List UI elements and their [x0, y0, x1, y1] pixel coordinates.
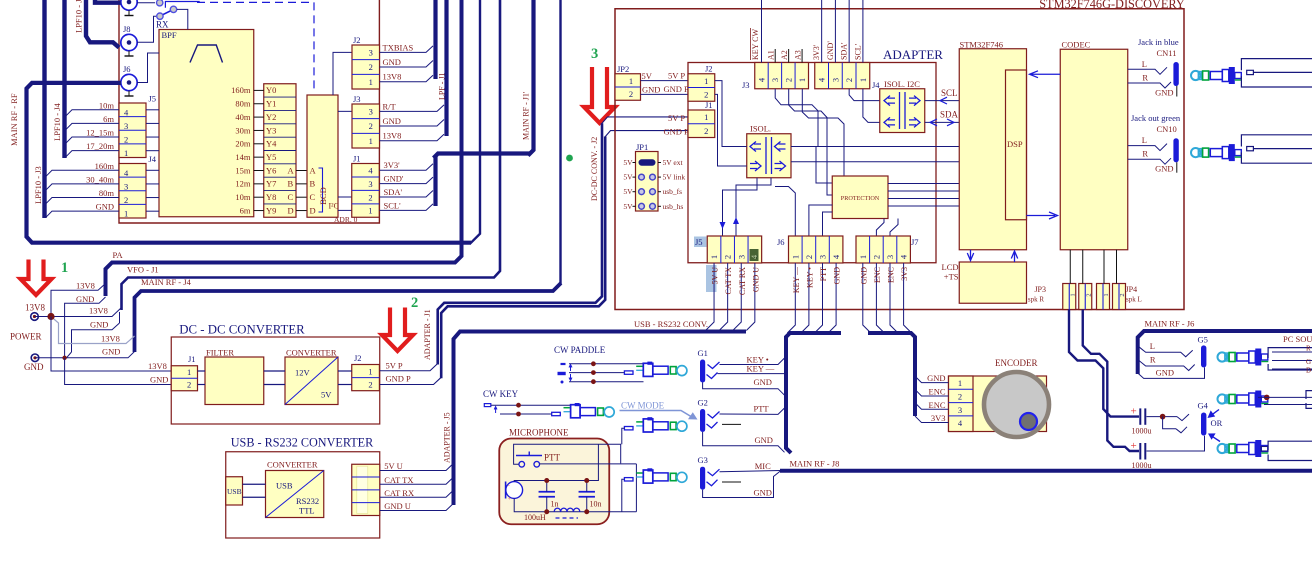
- svg-text:13V8: 13V8: [89, 306, 108, 316]
- svg-text:R: R: [1150, 355, 1156, 365]
- svg-text:ENC: ENC: [873, 267, 882, 283]
- PC mic plug (upper) tick: [1261, 403, 1268, 405]
- svg-text:4: 4: [899, 254, 909, 259]
- svg-text:3: 3: [369, 107, 373, 117]
- Y decoder block: [264, 84, 296, 218]
- svg-text:30_40m: 30_40m: [86, 174, 114, 184]
- JP1 row usb_fs left stub: [633, 191, 636, 193]
- svg-text:GND': GND': [826, 41, 835, 60]
- svg-text:A2: A2: [780, 50, 789, 60]
- stub J4 pin3 to BPF: [146, 183, 159, 185]
- svg-text:VFO - J1: VFO - J1: [127, 265, 159, 275]
- wire J2 main west: [333, 52, 352, 95]
- PC sound wire R: [1272, 351, 1312, 353]
- svg-text:PTT: PTT: [544, 453, 561, 463]
- coax connector J8 center pin: [127, 40, 132, 45]
- svg-text:ADAPTER - J5: ADAPTER - J5: [443, 412, 452, 463]
- encoder header separator 2: [949, 402, 974, 404]
- wire SDA: [925, 121, 960, 123]
- G1 tip contact: [708, 362, 720, 369]
- JP1 row 5V ext left stub: [633, 162, 636, 164]
- CN11 plug ring: [1203, 71, 1209, 80]
- svg-text:Jack out green: Jack out green: [1131, 113, 1181, 123]
- wire J2 pin1 to ISOL: [715, 81, 747, 147]
- svg-text:5V: 5V: [623, 158, 633, 167]
- CN10 plug ring: [1203, 148, 1209, 157]
- svg-text:Y0: Y0: [266, 85, 276, 95]
- wire CONVERTER-J2 pin2: [338, 384, 352, 386]
- stub J5 pin4 to BPF: [146, 109, 159, 111]
- stub J5 pin1 to BPF: [146, 150, 159, 152]
- G5 plug tick: [1261, 361, 1268, 363]
- coax J9 (top, cut) ground bar: [125, 15, 134, 17]
- wire cap1 to G4: [1147, 416, 1178, 418]
- wire 13V8 row0: [51, 284, 106, 317]
- svg-text:J1: J1: [353, 154, 361, 164]
- svg-text:G2: G2: [698, 398, 708, 408]
- svg-text:3: 3: [885, 255, 895, 259]
- CW mode plug flange: [643, 419, 653, 432]
- svg-text:-: -: [508, 483, 510, 489]
- CN11 cable outline: [1241, 59, 1312, 87]
- svg-text:12_15m: 12_15m: [86, 128, 114, 138]
- terminal GND pin: [33, 356, 36, 359]
- svg-text:1000u: 1000u: [1132, 427, 1152, 436]
- svg-text:R/T: R/T: [383, 101, 397, 111]
- svg-text:B: B: [310, 179, 316, 189]
- svg-text:J2: J2: [354, 353, 362, 363]
- JP3 cell1 line: [1068, 284, 1070, 310]
- wire branch 827 down: [827, 162, 832, 195]
- svg-text:Y6: Y6: [266, 165, 276, 175]
- SDA arrowhead left: [930, 119, 937, 126]
- CW key plug ring: [598, 408, 604, 415]
- wire B Y-block to BCD: [296, 183, 307, 185]
- JP4 cell2 line: [1118, 284, 1120, 310]
- JP2 separator: [615, 86, 641, 88]
- ISOL arrow mid-top: [775, 142, 786, 152]
- svg-text:1: 1: [1103, 293, 1110, 296]
- wire SCL' to I2C: [863, 89, 880, 123]
- svg-text:PC SOUND: PC SOUND: [1283, 334, 1312, 344]
- svg-text:1: 1: [704, 112, 708, 122]
- wire J1-FILTER pin1: [198, 370, 206, 372]
- CW mode plug flange tab: [648, 418, 652, 420]
- bus MAIN RF - RF (J6 feed): [27, 83, 472, 243]
- svg-text:GND P: GND P: [386, 374, 412, 384]
- svg-text:spk L: spk L: [1126, 296, 1142, 304]
- svg-text:2: 2: [368, 192, 372, 202]
- G5 plug barrel: [1237, 353, 1249, 361]
- svg-text:J1: J1: [705, 100, 713, 110]
- CN11 cable hole: [1247, 70, 1254, 74]
- pin wire GND U: [746, 263, 755, 331]
- wire CODEC down x1082.75: [1082, 250, 1084, 284]
- wire GND: [379, 120, 444, 127]
- CONVERTER 12V/5V block: [285, 357, 338, 405]
- svg-text:10m: 10m: [99, 100, 115, 110]
- J1 (DC-DC) pin separator 1: [171, 377, 197, 379]
- pin wire J7-2: [876, 263, 884, 333]
- ADAPTER outer box: [615, 9, 1184, 310]
- I2C isolator barrier a: [899, 92, 901, 129]
- J1 (adapter) pin separator 1: [688, 123, 715, 125]
- wire PROTECTION to STM32 3: [888, 205, 959, 207]
- pin wire J6-2: [801, 263, 809, 333]
- wire PROTECTION to STM32 1: [888, 190, 959, 192]
- svg-text:R: R: [1306, 345, 1311, 353]
- RX switch contact bottom: [157, 13, 163, 19]
- G3 nc stub: [722, 481, 741, 483]
- wire GND to DC-DC J1: [65, 358, 172, 385]
- svg-text:1: 1: [858, 255, 868, 259]
- junction mic rail 1: [544, 478, 549, 483]
- svg-text:160m: 160m: [231, 85, 251, 95]
- svg-text:D: D: [288, 205, 294, 215]
- svg-text:3: 3: [770, 78, 780, 82]
- wire 3V3': [379, 164, 433, 171]
- CW mode plug cyan tick: [636, 425, 642, 427]
- blue stub wire at switch: [165, 2, 199, 8]
- G3 ring contact: [707, 480, 718, 486]
- wire J1-FILTER pin2: [198, 384, 206, 386]
- PTT contact left: [519, 461, 525, 467]
- wire C Y-block to BCD: [296, 196, 307, 198]
- output connector separator 2: [352, 489, 380, 491]
- wire PTT G2: [720, 408, 785, 414]
- svg-text:USB: USB: [276, 481, 293, 491]
- wire mic out right: [635, 464, 637, 512]
- RX switch contact moving: [170, 6, 176, 12]
- encoder pin header: [949, 376, 974, 432]
- wire stub 10m to Y8: [254, 196, 264, 198]
- svg-text:MICROPHONE: MICROPHONE: [509, 428, 569, 438]
- svg-text:1: 1: [790, 255, 800, 259]
- svg-text:1: 1: [61, 260, 68, 276]
- svg-text:USB - RS232 CONV.: USB - RS232 CONV.: [634, 319, 708, 329]
- wire stub 30m to Y3: [254, 129, 264, 131]
- microphone plug green tick: [636, 472, 642, 474]
- wire 80m to LPF10-J3 bus: [46, 198, 119, 204]
- microphone plug cap: [677, 472, 687, 482]
- paddle long dash symbol: [558, 372, 566, 375]
- J2 (DC-DC) pin separator 1: [352, 377, 380, 379]
- wire 13V8: [379, 134, 444, 141]
- wire J6 pin1 up: [775, 187, 795, 237]
- paddle junction 3: [591, 379, 596, 384]
- Y block row separator 1: [264, 96, 296, 98]
- svg-text:1: 1: [709, 255, 719, 259]
- svg-text:STM32F746: STM32F746: [960, 40, 1003, 50]
- wire FILTER-CONVERTER pin1: [264, 370, 285, 372]
- svg-text:J6: J6: [777, 237, 785, 247]
- capacitor 1n stub top: [546, 481, 548, 492]
- svg-text:SDA': SDA': [840, 42, 849, 60]
- svg-text:SCL': SCL': [853, 43, 862, 60]
- bus LPF10-J4 vertical: [62, 0, 66, 158]
- svg-text:Y7: Y7: [266, 179, 276, 189]
- PTT button stem: [528, 452, 530, 456]
- paddle junction 2: [591, 370, 596, 375]
- svg-text:J2: J2: [705, 64, 713, 74]
- wire PROTECTION to STM32 2: [888, 198, 959, 200]
- svg-text:LPF10 - J4: LPF10 - J4: [52, 102, 62, 141]
- svg-text:Y2: Y2: [266, 112, 276, 122]
- svg-text:BPF: BPF: [162, 30, 177, 40]
- connector J2 (main): [352, 45, 380, 89]
- arrow DSP to CODEC: [1027, 212, 1058, 219]
- J1 (main) pin separator 1: [352, 176, 380, 178]
- CN10 jack sleeve bar: [1173, 138, 1178, 162]
- wire stub 20m to Y4: [254, 143, 264, 145]
- wire 5V U to bus: [380, 464, 453, 471]
- svg-text:USB - RS232 CONVERTER: USB - RS232 CONVERTER: [231, 436, 374, 450]
- svg-text:2: 2: [704, 126, 708, 136]
- svg-text:3: 3: [736, 255, 746, 259]
- I2C arrow right-bot: [909, 117, 920, 127]
- wire ISOL bottom to J5 pin3: [736, 178, 771, 236]
- JP1 row 5V ext right stub: [658, 162, 661, 164]
- wire A Y-block to BCD: [296, 170, 307, 172]
- PTT contact right: [534, 461, 540, 467]
- wire ISOL bottom to J5 pin2: [723, 178, 758, 236]
- Y block row separator 5: [264, 150, 296, 152]
- CN10 plug tick: [1235, 156, 1242, 158]
- wire 13V8 row2: [35, 308, 122, 317]
- CW mode plug cap: [677, 421, 687, 431]
- G4 tip contact wire: [1177, 414, 1189, 421]
- svg-text:GND: GND: [859, 267, 868, 285]
- USB port block: [226, 477, 243, 505]
- microphone plug cyan tick: [636, 476, 642, 478]
- svg-text:12V: 12V: [295, 368, 311, 378]
- Y block row separator 7: [264, 176, 296, 178]
- jumper JP4 cell 2: [1113, 284, 1126, 310]
- red arrow 3: [584, 67, 615, 123]
- ADAPTER inner box: [688, 63, 936, 263]
- jack G2 sleeve bar: [700, 409, 705, 432]
- svg-text:GND: GND: [833, 267, 842, 285]
- svg-text:Jack in blue: Jack in blue: [1138, 37, 1179, 47]
- svg-text:GND: GND: [754, 488, 772, 498]
- svg-text:+TS: +TS: [944, 272, 959, 282]
- CW paddle plug flange tab: [648, 362, 652, 364]
- pin wire J6-4: [828, 263, 836, 333]
- jumper block JP1: [636, 152, 659, 212]
- svg-text:GND: GND: [24, 362, 44, 372]
- svg-text:LCD: LCD: [942, 262, 959, 272]
- svg-text:PTT: PTT: [819, 267, 828, 281]
- CN10 plug collar: [1222, 147, 1229, 159]
- svg-text:ENC: ENC: [929, 386, 946, 396]
- stub J5 pin3 to BPF: [146, 122, 159, 124]
- svg-text:JP3: JP3: [1034, 285, 1046, 294]
- svg-text:TTL: TTL: [299, 506, 315, 516]
- svg-text:RX: RX: [156, 20, 169, 30]
- wire J7 pin2 up: [876, 219, 884, 237]
- wire PTT loop bottom: [540, 463, 637, 465]
- mode plug wire tip: [622, 428, 625, 444]
- wire 17_20m to LPF10-J4 bus: [66, 151, 119, 157]
- LCD+TS block: [959, 262, 1026, 303]
- bus VFO - J1 sweep: [122, 0, 501, 310]
- G5 sleeve bar: [1201, 345, 1206, 367]
- svg-text:3: 3: [368, 179, 372, 189]
- CN10 plug barrel: [1210, 149, 1222, 157]
- wire R/T: [379, 105, 444, 112]
- wire cap2 to G4 bottom: [1147, 436, 1205, 451]
- connector J2 (adapter): [688, 74, 715, 102]
- coax J6 ground stub: [128, 91, 130, 96]
- red arrow 1: [21, 260, 52, 296]
- svg-text:J5: J5: [149, 94, 157, 104]
- USB-RS232 converter box: [226, 452, 380, 538]
- CN10 L wire: [1128, 144, 1167, 151]
- CN11 plug flange: [1229, 67, 1235, 84]
- wire encoder ENC: [915, 389, 949, 396]
- svg-text:I²C: I²C: [329, 202, 339, 211]
- svg-text:2: 2: [844, 78, 854, 82]
- wire SDA' to I2C: [849, 89, 880, 101]
- svg-text:G5: G5: [1198, 335, 1208, 345]
- USB-RS232 output connector inner: [357, 466, 368, 513]
- jumper JP2: [615, 74, 641, 101]
- svg-text:160m: 160m: [95, 161, 115, 171]
- svg-text:JP2: JP2: [617, 64, 629, 74]
- highlight 5V U label: [706, 265, 717, 292]
- wire mic top rail: [514, 444, 598, 481]
- PC mic plug (upper) flange: [1255, 391, 1261, 408]
- CN11 plug tick: [1235, 79, 1242, 81]
- svg-text:CODEC: CODEC: [1062, 40, 1091, 50]
- svg-text:OR: OR: [1211, 418, 1223, 428]
- isolator barrier a: [765, 137, 767, 174]
- svg-text:2: 2: [368, 379, 372, 389]
- G2 ring contact: [707, 422, 718, 428]
- svg-text:G1: G1: [698, 348, 708, 358]
- CW mode plug tip pin: [624, 427, 633, 430]
- svg-text:3: 3: [818, 255, 828, 259]
- paddle dot symbol: [561, 381, 564, 384]
- svg-text:SDA: SDA: [940, 110, 959, 120]
- bus MAIN RF - J1' lower segment: [433, 156, 437, 206]
- svg-text:STM32F746G-DISCOVERY: STM32F746G-DISCOVERY: [1039, 0, 1185, 11]
- CN11 GND stub: [1176, 86, 1178, 97]
- microphone plug flange: [643, 470, 653, 483]
- G2 nc stub: [722, 423, 741, 425]
- svg-text:R: R: [1142, 149, 1148, 159]
- Y block row separator 9: [264, 203, 296, 205]
- svg-text:2: 2: [704, 90, 708, 100]
- coax J8 ground stub: [128, 51, 130, 56]
- wire GND row3: [72, 323, 120, 352]
- PC line plug (lower) tick: [1261, 452, 1268, 454]
- PC sound wire G: [1272, 360, 1312, 362]
- CN11 plug cap inner: [1198, 72, 1201, 80]
- svg-text:CAT TX: CAT TX: [384, 475, 413, 485]
- microphone plug ring: [670, 473, 676, 480]
- wire L G5: [1138, 346, 1193, 357]
- wire stub 160m to Y0: [254, 89, 264, 91]
- wire CAT RX to bus: [380, 491, 453, 498]
- J6 (adapter) separator 2: [815, 236, 817, 263]
- bus MAIN RF - RF north segment: [470, 0, 480, 244]
- svg-text:J3: J3: [353, 94, 361, 104]
- converter diagonal: [285, 357, 338, 405]
- CW paddle plug ring: [670, 367, 676, 374]
- svg-text:1: 1: [1069, 293, 1076, 296]
- J2 (adapter) pin separator 1: [688, 87, 715, 89]
- encoder header separator 1: [949, 388, 974, 390]
- pin stub A3: [801, 49, 803, 63]
- wire CODEC down x1116.5: [1116, 250, 1118, 284]
- capacitor 1n bottom plate: [539, 496, 555, 498]
- svg-text:2: 2: [958, 391, 962, 401]
- svg-text:GND: GND: [90, 320, 108, 330]
- svg-text:A: A: [310, 165, 317, 175]
- key arrow: [494, 407, 497, 414]
- svg-text:2: 2: [411, 295, 418, 311]
- CN10 R wire: [1128, 158, 1171, 164]
- bus LPF10-J3 vertical: [42, 0, 46, 218]
- PC mic plug (upper) pin: [1261, 396, 1268, 402]
- arrow LCD to STM32: [1011, 251, 1017, 262]
- PC line plug (lower) collar: [1249, 443, 1256, 455]
- svg-text:4: 4: [756, 77, 766, 82]
- svg-text:LPF10 - J5: LPF10 - J5: [74, 0, 84, 33]
- jumper JP3 cell 2: [1079, 284, 1092, 310]
- PROTECTION block: [832, 176, 888, 219]
- wire RX to BPF top: [177, 9, 188, 29]
- svg-text:G3: G3: [698, 455, 708, 465]
- svg-text:80m: 80m: [235, 99, 251, 109]
- stub J4 pin2 to BPF: [146, 197, 159, 199]
- svg-text:C: C: [310, 192, 316, 202]
- svg-text:1: 1: [124, 148, 128, 158]
- pin wire J6-1: [787, 263, 795, 333]
- wire GND row3 tail: [67, 352, 72, 358]
- wire J6 to BPF: [137, 53, 159, 83]
- PTT button bar: [516, 455, 542, 457]
- svg-text:DSP: DSP: [1007, 139, 1023, 149]
- wire 12_15m to LPF10-J4 bus: [66, 137, 119, 143]
- svg-text:2: 2: [723, 255, 733, 259]
- J4 adapter separator 1: [828, 63, 830, 89]
- svg-text:GND: GND: [642, 85, 660, 95]
- svg-text:1: 1: [187, 367, 191, 377]
- pc mic cable box upper: [1306, 391, 1312, 409]
- wire TXBIAS: [379, 46, 433, 53]
- capacitor 1n stub bottom: [546, 497, 548, 512]
- JP1 pin b usb_fs: [650, 189, 656, 195]
- PC mic plug (upper) cap inner: [1225, 395, 1228, 403]
- svg-text:J4: J4: [872, 80, 880, 90]
- svg-text:ISOL.: ISOL.: [750, 124, 771, 134]
- svg-text:GND P: GND P: [664, 84, 690, 94]
- bus MAIN RF - J1' vertical: [528, 0, 534, 156]
- isolator ISOL. I2C: [880, 89, 925, 133]
- svg-text:1n: 1n: [551, 500, 559, 509]
- svg-text:1: 1: [958, 378, 962, 388]
- svg-text:SDA': SDA': [384, 187, 403, 197]
- CN11 plug pin: [1235, 73, 1242, 79]
- wire SDA': [379, 191, 433, 198]
- junction GND: [62, 356, 66, 360]
- svg-text:ADAPTER - J1: ADAPTER - J1: [423, 309, 432, 360]
- CW mode plug green tick: [636, 421, 642, 423]
- MICROPHONE box: [499, 439, 609, 525]
- jumper JP3 cell 1: [1063, 284, 1076, 310]
